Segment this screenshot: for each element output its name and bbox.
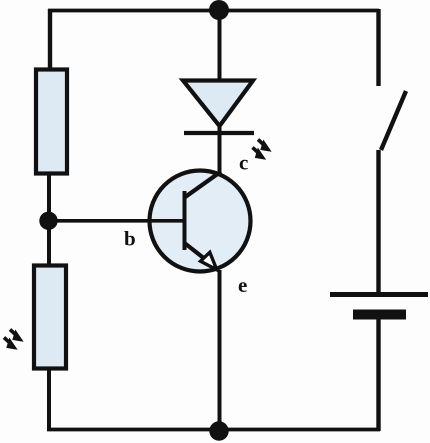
wire left vertical lower [47,367,51,431]
transistor Q1 base bar [183,191,187,250]
transistor Q1 emitter arrowhead [201,252,217,269]
battery B1 positive plate [330,292,428,297]
transistor Q1 body [150,171,251,272]
wire emitter [218,270,222,431]
wire right vertical upper [376,9,380,86]
svg-text:c: c [239,151,248,175]
wire right vertical mid [376,150,380,294]
wire top rail [48,9,379,13]
svg-text:b: b [124,227,136,251]
wire left vertical upper [48,9,52,72]
transistor Q1 collector stroke [185,172,222,198]
wire base [52,219,184,223]
wire anode drop [218,10,222,83]
resistor R2 (LDR) [34,266,66,369]
battery B1 negative plate [353,310,406,320]
node top junction [209,0,229,20]
LED emitted light arrows [253,140,268,158]
light arrows into LDR [4,330,20,348]
svg-text:e: e [238,273,247,297]
node base junction [39,212,57,230]
wire collector [218,124,222,177]
wire bottom rail [47,428,380,432]
switch S1 blade [381,91,406,150]
wire left vertical mid [47,173,51,266]
wire right vertical lower [376,319,380,431]
resistor R1 [36,70,67,174]
diode D1 cathode bar [184,131,254,135]
node bottom junction [209,421,228,440]
transistor Q1 emitter stroke [185,243,204,258]
diode D1 (LED) triangle [183,81,253,127]
